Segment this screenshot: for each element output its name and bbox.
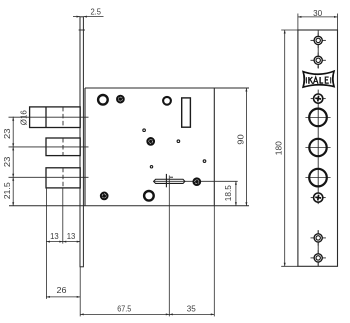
svg-text:13: 13 bbox=[50, 232, 59, 241]
dim 30 (top of plate) bbox=[297, 14, 299, 31]
bolt 1 dashed centerline bbox=[62, 107, 64, 128]
key centre extension line going down bbox=[168, 176, 170, 317]
small hole 4 bbox=[150, 166, 152, 168]
dim 180 (left of plate) bbox=[281, 29, 298, 31]
extension line x=46.4 down to 26-dim bbox=[45, 188, 47, 299]
extension line strip left edge down to 67.5-dim bbox=[79, 267, 81, 317]
dim 67.5 / 35 (bottom) bbox=[80, 313, 214, 315]
lock body top edge + 90 extension bbox=[85, 87, 249, 89]
bolt 3 bbox=[46, 168, 80, 188]
big circle C bbox=[305, 177, 330, 179]
faceplate outline bbox=[298, 30, 338, 266]
bolt 1 (deadbolt Ø16) bbox=[30, 107, 81, 128]
bolt 3 dashed centerline bbox=[62, 168, 64, 188]
lock body right edge bbox=[213, 88, 215, 206]
screw hole top 2 bbox=[311, 53, 326, 68]
svg-text:30: 30 bbox=[313, 9, 323, 18]
bolt 3 axis line bbox=[9, 176, 89, 178]
extension line body right edge down to 35-dim bbox=[213, 206, 215, 317]
svg-text:23: 23 bbox=[3, 128, 12, 139]
KALE letters bbox=[309, 77, 329, 84]
lock body left edge bbox=[84, 88, 86, 206]
extension line x=62.8 down to 13-dim bbox=[62, 188, 64, 244]
screw E (plate) bbox=[311, 98, 326, 100]
screw A bbox=[117, 96, 124, 103]
screw hole top 1 bbox=[311, 33, 326, 48]
dim 18.5 bbox=[235, 181, 237, 206]
key bit (horizontal key shape) bbox=[154, 174, 185, 187]
bolt 1 axis line bbox=[9, 116, 89, 118]
big circle B bbox=[305, 147, 330, 149]
screw B bbox=[147, 138, 154, 145]
faceplate centreline segments bbox=[317, 30, 319, 266]
svg-text:180: 180 bbox=[274, 141, 283, 156]
svg-text:21.5: 21.5 bbox=[3, 182, 12, 200]
screw F (plate) bbox=[311, 197, 326, 199]
ring top-middle (hub) bbox=[163, 97, 171, 105]
dim 90 bbox=[245, 88, 247, 206]
svg-text:90: 90 bbox=[236, 134, 245, 145]
key axis line to 18.5 dim bbox=[154, 180, 238, 182]
bolt 2 bbox=[46, 138, 80, 156]
big circle A bbox=[305, 116, 330, 118]
ring top-left (hub) bbox=[98, 95, 108, 105]
svg-text:26: 26 bbox=[57, 286, 68, 295]
svg-text:67.5: 67.5 bbox=[117, 305, 131, 314]
small hole 1 bbox=[143, 129, 146, 132]
bolt 2 dashed centerline bbox=[62, 138, 64, 156]
faceplate seam tick bbox=[79, 29, 85, 31]
svg-text:35: 35 bbox=[187, 305, 197, 314]
screw hole bottom 2 bbox=[311, 250, 326, 265]
screw hole bottom 1 bbox=[311, 230, 326, 245]
faceplate strip (side view, 2.5 thick) bbox=[80, 17, 83, 267]
screw C bbox=[193, 178, 200, 185]
small hole 3 bbox=[203, 160, 206, 163]
KALE logo bbox=[302, 70, 335, 88]
small hole 2 bbox=[177, 140, 180, 143]
svg-text:18.5: 18.5 bbox=[224, 185, 233, 202]
screw D bbox=[101, 193, 108, 200]
svg-text:23: 23 bbox=[3, 156, 12, 167]
dim 2.5 (top) bbox=[73, 16, 104, 18]
left dim line (Ø16 / 23 / 23 / 21.5) bbox=[12, 117, 14, 206]
bolt 2 axis line bbox=[9, 146, 89, 148]
dim 26 bbox=[46, 296, 80, 298]
lock body bottom edge + 21.5 extension bbox=[9, 205, 249, 207]
svg-text:13: 13 bbox=[67, 232, 76, 241]
svg-text:Ø16: Ø16 bbox=[20, 110, 29, 126]
ring bottom (hub) bbox=[144, 191, 154, 201]
dim 13/13 bbox=[46, 241, 80, 243]
slot rectangle bbox=[182, 98, 191, 127]
svg-text:2.5: 2.5 bbox=[90, 7, 101, 16]
